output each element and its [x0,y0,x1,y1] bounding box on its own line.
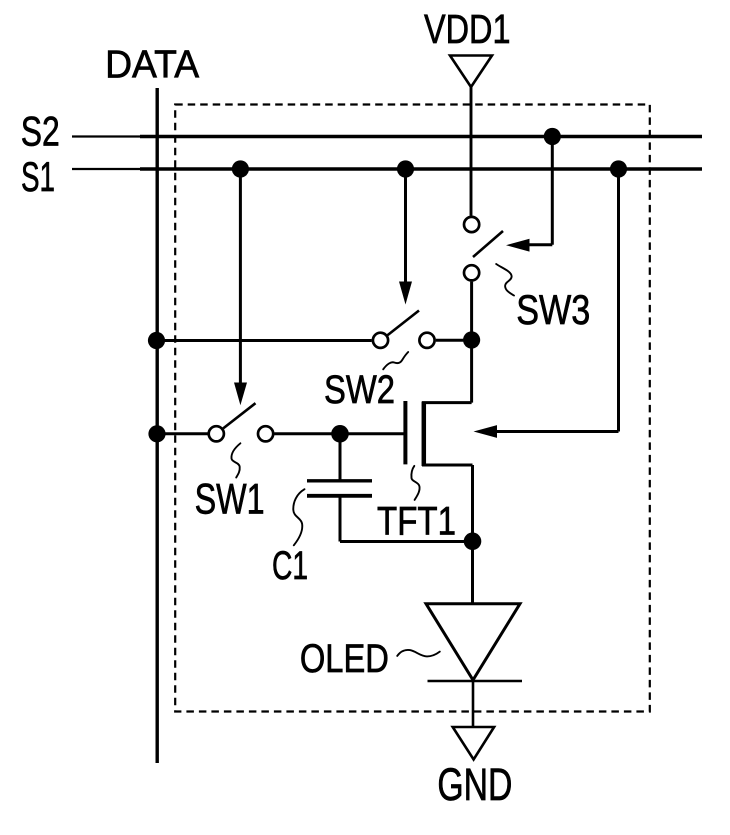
svg-text:SW3: SW3 [516,286,590,333]
svg-text:C1: C1 [272,544,308,588]
svg-text:DATA: DATA [105,44,200,87]
svg-text:S1: S1 [21,153,55,200]
svg-text:S2: S2 [21,108,60,155]
svg-text:OLED: OLED [300,637,389,681]
svg-text:SW1: SW1 [195,476,265,524]
svg-text:VDD1: VDD1 [424,6,511,52]
svg-text:SW2: SW2 [324,368,395,412]
svg-text:TFT1: TFT1 [377,500,456,544]
svg-text:GND: GND [437,759,512,810]
